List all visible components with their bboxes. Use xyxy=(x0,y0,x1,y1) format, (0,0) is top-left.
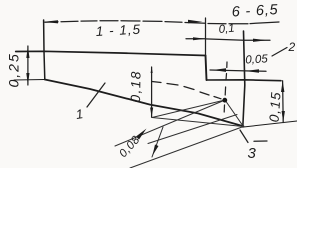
svg-text:1 - 1,5: 1 - 1,5 xyxy=(95,22,141,39)
svg-text:0,1: 0,1 xyxy=(218,23,235,36)
svg-text:1: 1 xyxy=(75,106,84,122)
svg-text:2: 2 xyxy=(288,40,296,54)
svg-text:0,15: 0,15 xyxy=(267,91,284,123)
svg-text:0,25: 0,25 xyxy=(6,52,22,87)
svg-text:3: 3 xyxy=(248,145,257,162)
svg-text:6 - 6,5: 6 - 6,5 xyxy=(231,2,279,20)
svg-text:0,18: 0,18 xyxy=(128,70,144,103)
svg-text:0,05: 0,05 xyxy=(245,53,269,66)
